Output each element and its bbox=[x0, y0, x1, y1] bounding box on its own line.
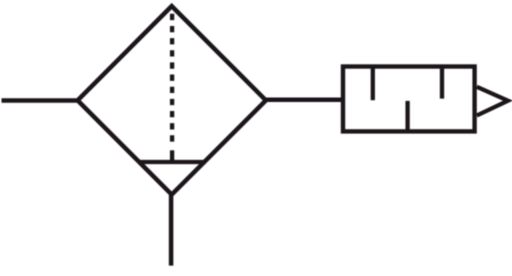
silencer baffle 3 (from top) bbox=[440, 67, 444, 99]
filter element dashed line: end tick touching sump chord bbox=[170, 150, 174, 161]
filter element (dashed separator line) bbox=[170, 14, 174, 142]
wire: left inlet port line bbox=[2, 98, 78, 103]
silencer baffle 1 (from top) bbox=[371, 67, 375, 101]
condensate sump chord (water separator baffle) bbox=[138, 160, 205, 164]
exhaust triangle (outlet to atmosphere) bbox=[477, 87, 508, 116]
silencer baffle 2 (from bottom) bbox=[405, 101, 409, 131]
wire: connection filter to silencer bbox=[266, 98, 343, 103]
filter F1: diamond body bbox=[78, 6, 266, 195]
wire: condensate drain line bbox=[169, 195, 174, 266]
silencer body (labyrinth box) bbox=[343, 67, 475, 132]
